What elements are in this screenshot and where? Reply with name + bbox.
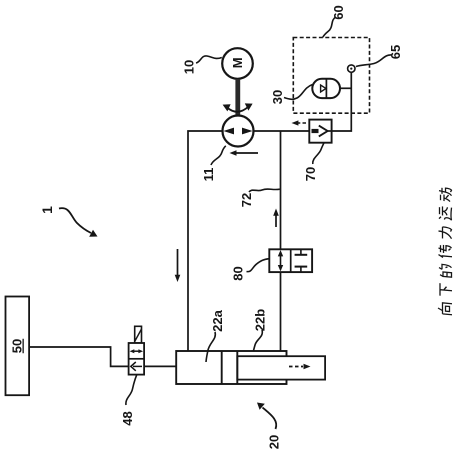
label 10 — [182, 56, 222, 74]
label 72 — [239, 189, 280, 207]
svg-text:65: 65 — [388, 45, 403, 59]
gauge point 65 — [348, 65, 355, 72]
下 — [440, 283, 452, 297]
的 — [439, 264, 452, 277]
annotation: 向下的传力运动 (drawn strokes, rotated) — [438, 188, 452, 315]
wire: accumulator to branch — [340, 87, 351, 89]
label 60 — [323, 5, 346, 37]
wire 72 lower — [280, 272, 282, 351]
svg-text:22b: 22b — [253, 309, 268, 331]
动 — [439, 188, 452, 202]
svg-text:80: 80 — [231, 266, 246, 280]
check valve 70 — [309, 120, 331, 143]
label 22b — [253, 309, 268, 351]
label 30 — [270, 85, 313, 105]
pump 11 — [223, 116, 254, 147]
valve 80 — [269, 249, 312, 272]
传 — [439, 245, 453, 259]
shaft — [235, 79, 240, 116]
svg-text:48: 48 — [120, 411, 135, 425]
label 22a — [206, 309, 225, 362]
svg-text:50: 50 — [10, 339, 25, 353]
向 — [438, 303, 452, 315]
svg-text:1: 1 — [39, 206, 55, 214]
svg-text:20: 20 — [267, 435, 282, 449]
力 — [439, 227, 452, 240]
tank 50 — [6, 297, 30, 396]
flow arrow below pump — [230, 150, 259, 155]
accumulator 30 — [312, 79, 340, 98]
dashed arrow at valve 70 — [292, 120, 307, 125]
label 48 — [120, 375, 137, 426]
dashed arrow in rod — [289, 364, 311, 370]
label 20 — [257, 403, 282, 450]
valve 48 — [129, 326, 145, 374]
svg-text:60: 60 — [331, 5, 346, 19]
svg-text:11: 11 — [201, 168, 216, 182]
label 1 — [39, 206, 98, 237]
wire: valve 70 to accumulator branch — [332, 72, 352, 131]
piston rod — [237, 356, 325, 379]
svg-text:30: 30 — [270, 90, 285, 104]
label 70 — [303, 143, 324, 181]
cylinder 20 barrel — [176, 351, 286, 384]
wire: pump left port down to cylinder — [188, 131, 222, 351]
wire 72 upper — [280, 131, 282, 249]
dashed enclosure 60 — [293, 38, 369, 114]
svg-text:70: 70 — [303, 167, 318, 181]
down arrow on left wire — [175, 249, 181, 282]
label 80 — [231, 259, 270, 281]
运 — [439, 206, 452, 220]
svg-text:22a: 22a — [210, 309, 225, 331]
up arrow on wire 72 — [273, 209, 279, 228]
motor 10 — [222, 48, 253, 79]
piston — [222, 351, 238, 384]
label 11 — [201, 146, 226, 182]
label 65 — [356, 45, 403, 67]
wire: tank to valve 48 — [29, 347, 129, 366]
svg-text:10: 10 — [182, 60, 197, 74]
svg-text:72: 72 — [239, 193, 254, 207]
wire: valve 48 to cylinder — [144, 365, 176, 367]
wire: pump right port to valve 70 — [254, 130, 310, 132]
svg-text:M: M — [230, 57, 245, 68]
rotation arrow (bidirectional) — [223, 103, 253, 111]
